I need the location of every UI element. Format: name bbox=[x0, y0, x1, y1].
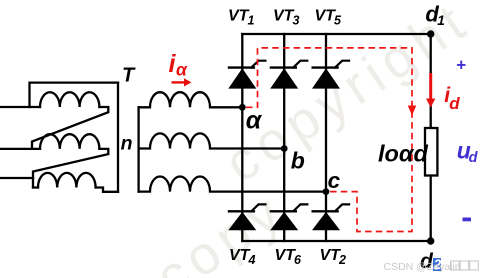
svg-text:4: 4 bbox=[248, 253, 256, 267]
svg-text:1: 1 bbox=[248, 14, 255, 28]
svg-text:1: 1 bbox=[437, 13, 445, 28]
node b bbox=[281, 145, 288, 152]
node d2 bbox=[427, 237, 434, 244]
svg-text:+: + bbox=[456, 56, 466, 75]
svg-text:VT: VT bbox=[229, 247, 251, 264]
secondary winding b bbox=[139, 133, 285, 148]
svg-text:2: 2 bbox=[338, 253, 346, 267]
red dashed conduction loop bbox=[246, 48, 412, 232]
label ud bbox=[457, 137, 479, 166]
red dashed loop arrowhead bbox=[408, 106, 417, 116]
thyristor VT1 bbox=[228, 61, 267, 89]
bottom dc rail bbox=[242, 240, 430, 242]
label VT6 bbox=[275, 247, 303, 267]
svg-text:α: α bbox=[246, 106, 263, 134]
svg-text:T: T bbox=[122, 65, 136, 87]
transformer T primary winding 1 bbox=[0, 106, 40, 108]
svg-text:n: n bbox=[121, 132, 133, 154]
thyristor VT2 bbox=[312, 204, 351, 230]
svg-text:loαd: loαd bbox=[378, 141, 428, 167]
label VT3 bbox=[273, 8, 300, 28]
load resistor bbox=[425, 128, 437, 176]
label id bbox=[444, 84, 460, 113]
svg-text:copyright: copyright bbox=[215, 0, 481, 194]
label VT1 bbox=[228, 8, 255, 28]
svg-text:VT: VT bbox=[275, 247, 297, 264]
svg-text:c: c bbox=[328, 168, 341, 193]
svg-text:α: α bbox=[176, 59, 188, 79]
bridge leg 2 bbox=[283, 34, 285, 241]
bridge leg 1 bbox=[241, 34, 243, 241]
svg-text:VT: VT bbox=[228, 8, 250, 25]
dc output right wire bbox=[430, 34, 432, 241]
label ia bbox=[169, 50, 189, 80]
svg-text:CSDN @Zeyalin: CSDN @Zeyalin bbox=[384, 261, 461, 273]
transformer T primary winding 2 bbox=[0, 148, 40, 150]
label minus bbox=[463, 218, 472, 222]
svg-text:VT: VT bbox=[273, 8, 295, 25]
node d1 bbox=[427, 30, 434, 37]
label VT4 bbox=[229, 247, 256, 267]
watermark copyright diagonal bbox=[146, 0, 481, 278]
thyristor VT6 bbox=[270, 204, 309, 230]
svg-text:6: 6 bbox=[294, 253, 302, 267]
svg-text:VT: VT bbox=[315, 8, 337, 25]
top dc rail bbox=[242, 33, 430, 35]
label VT2 bbox=[320, 247, 347, 267]
watermark CSDN bbox=[384, 261, 461, 273]
secondary winding a bbox=[139, 92, 243, 107]
current arrow id bbox=[426, 73, 435, 108]
node a bbox=[239, 104, 246, 111]
svg-text:3: 3 bbox=[293, 14, 300, 28]
thyristor VT3 bbox=[270, 61, 309, 89]
thyristor VT5 bbox=[312, 61, 351, 89]
svg-text:b: b bbox=[291, 148, 305, 174]
label VT5 bbox=[315, 8, 343, 28]
secondary winding c bbox=[139, 176, 326, 191]
label d2 with highlighted subscript bbox=[420, 250, 442, 273]
node c bbox=[323, 188, 330, 195]
transformer core right side wire bbox=[117, 83, 119, 192]
current arrow ia bbox=[172, 78, 192, 86]
svg-text:5: 5 bbox=[334, 14, 342, 28]
svg-text:d: d bbox=[449, 94, 460, 113]
bridge leg 3 bbox=[325, 34, 327, 241]
secondary star point bus bbox=[137, 107, 139, 191]
svg-text:VT: VT bbox=[320, 247, 342, 264]
transformer T primary winding 3 bbox=[0, 177, 33, 179]
svg-text:d: d bbox=[469, 150, 479, 166]
thyristor VT4 bbox=[228, 204, 267, 230]
label d1 bbox=[425, 2, 444, 28]
